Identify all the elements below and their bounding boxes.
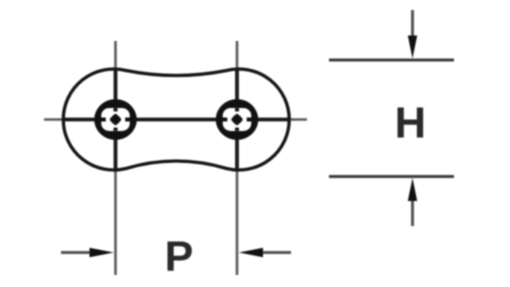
dimension H top line bbox=[329, 59, 454, 62]
wire: left vertical dark segment bbox=[114, 68, 118, 170]
dimension H bottom arrow tail bbox=[411, 200, 414, 226]
pin left center dot bbox=[110, 114, 121, 125]
svg-text:P: P bbox=[165, 233, 194, 281]
dimension H bottom line bbox=[329, 175, 454, 178]
pin bushing left ring bbox=[94, 99, 137, 140]
dimension P right arrowhead bbox=[239, 248, 263, 257]
link plate outline bbox=[63, 69, 289, 170]
svg-text:H: H bbox=[395, 100, 426, 148]
dimension P left arrow tail bbox=[61, 251, 90, 254]
dimension P left arrowhead bbox=[90, 248, 114, 257]
dimension H bottom arrowhead bbox=[408, 178, 417, 201]
dimension H top arrowhead bbox=[408, 36, 417, 59]
wire: horizontal centerline bbox=[44, 118, 307, 121]
wire: right vertical center/extension line bbox=[236, 41, 239, 275]
pin right center dot bbox=[232, 114, 243, 125]
dimension P right arrow tail bbox=[263, 251, 291, 254]
dimension H top arrow tail bbox=[411, 10, 414, 37]
pin bushing right ring bbox=[216, 99, 259, 140]
wire: horizontal centerline dark segment bbox=[63, 118, 289, 122]
wire: right vertical dark segment bbox=[235, 68, 239, 170]
wire: left vertical center/extension line bbox=[114, 41, 117, 275]
